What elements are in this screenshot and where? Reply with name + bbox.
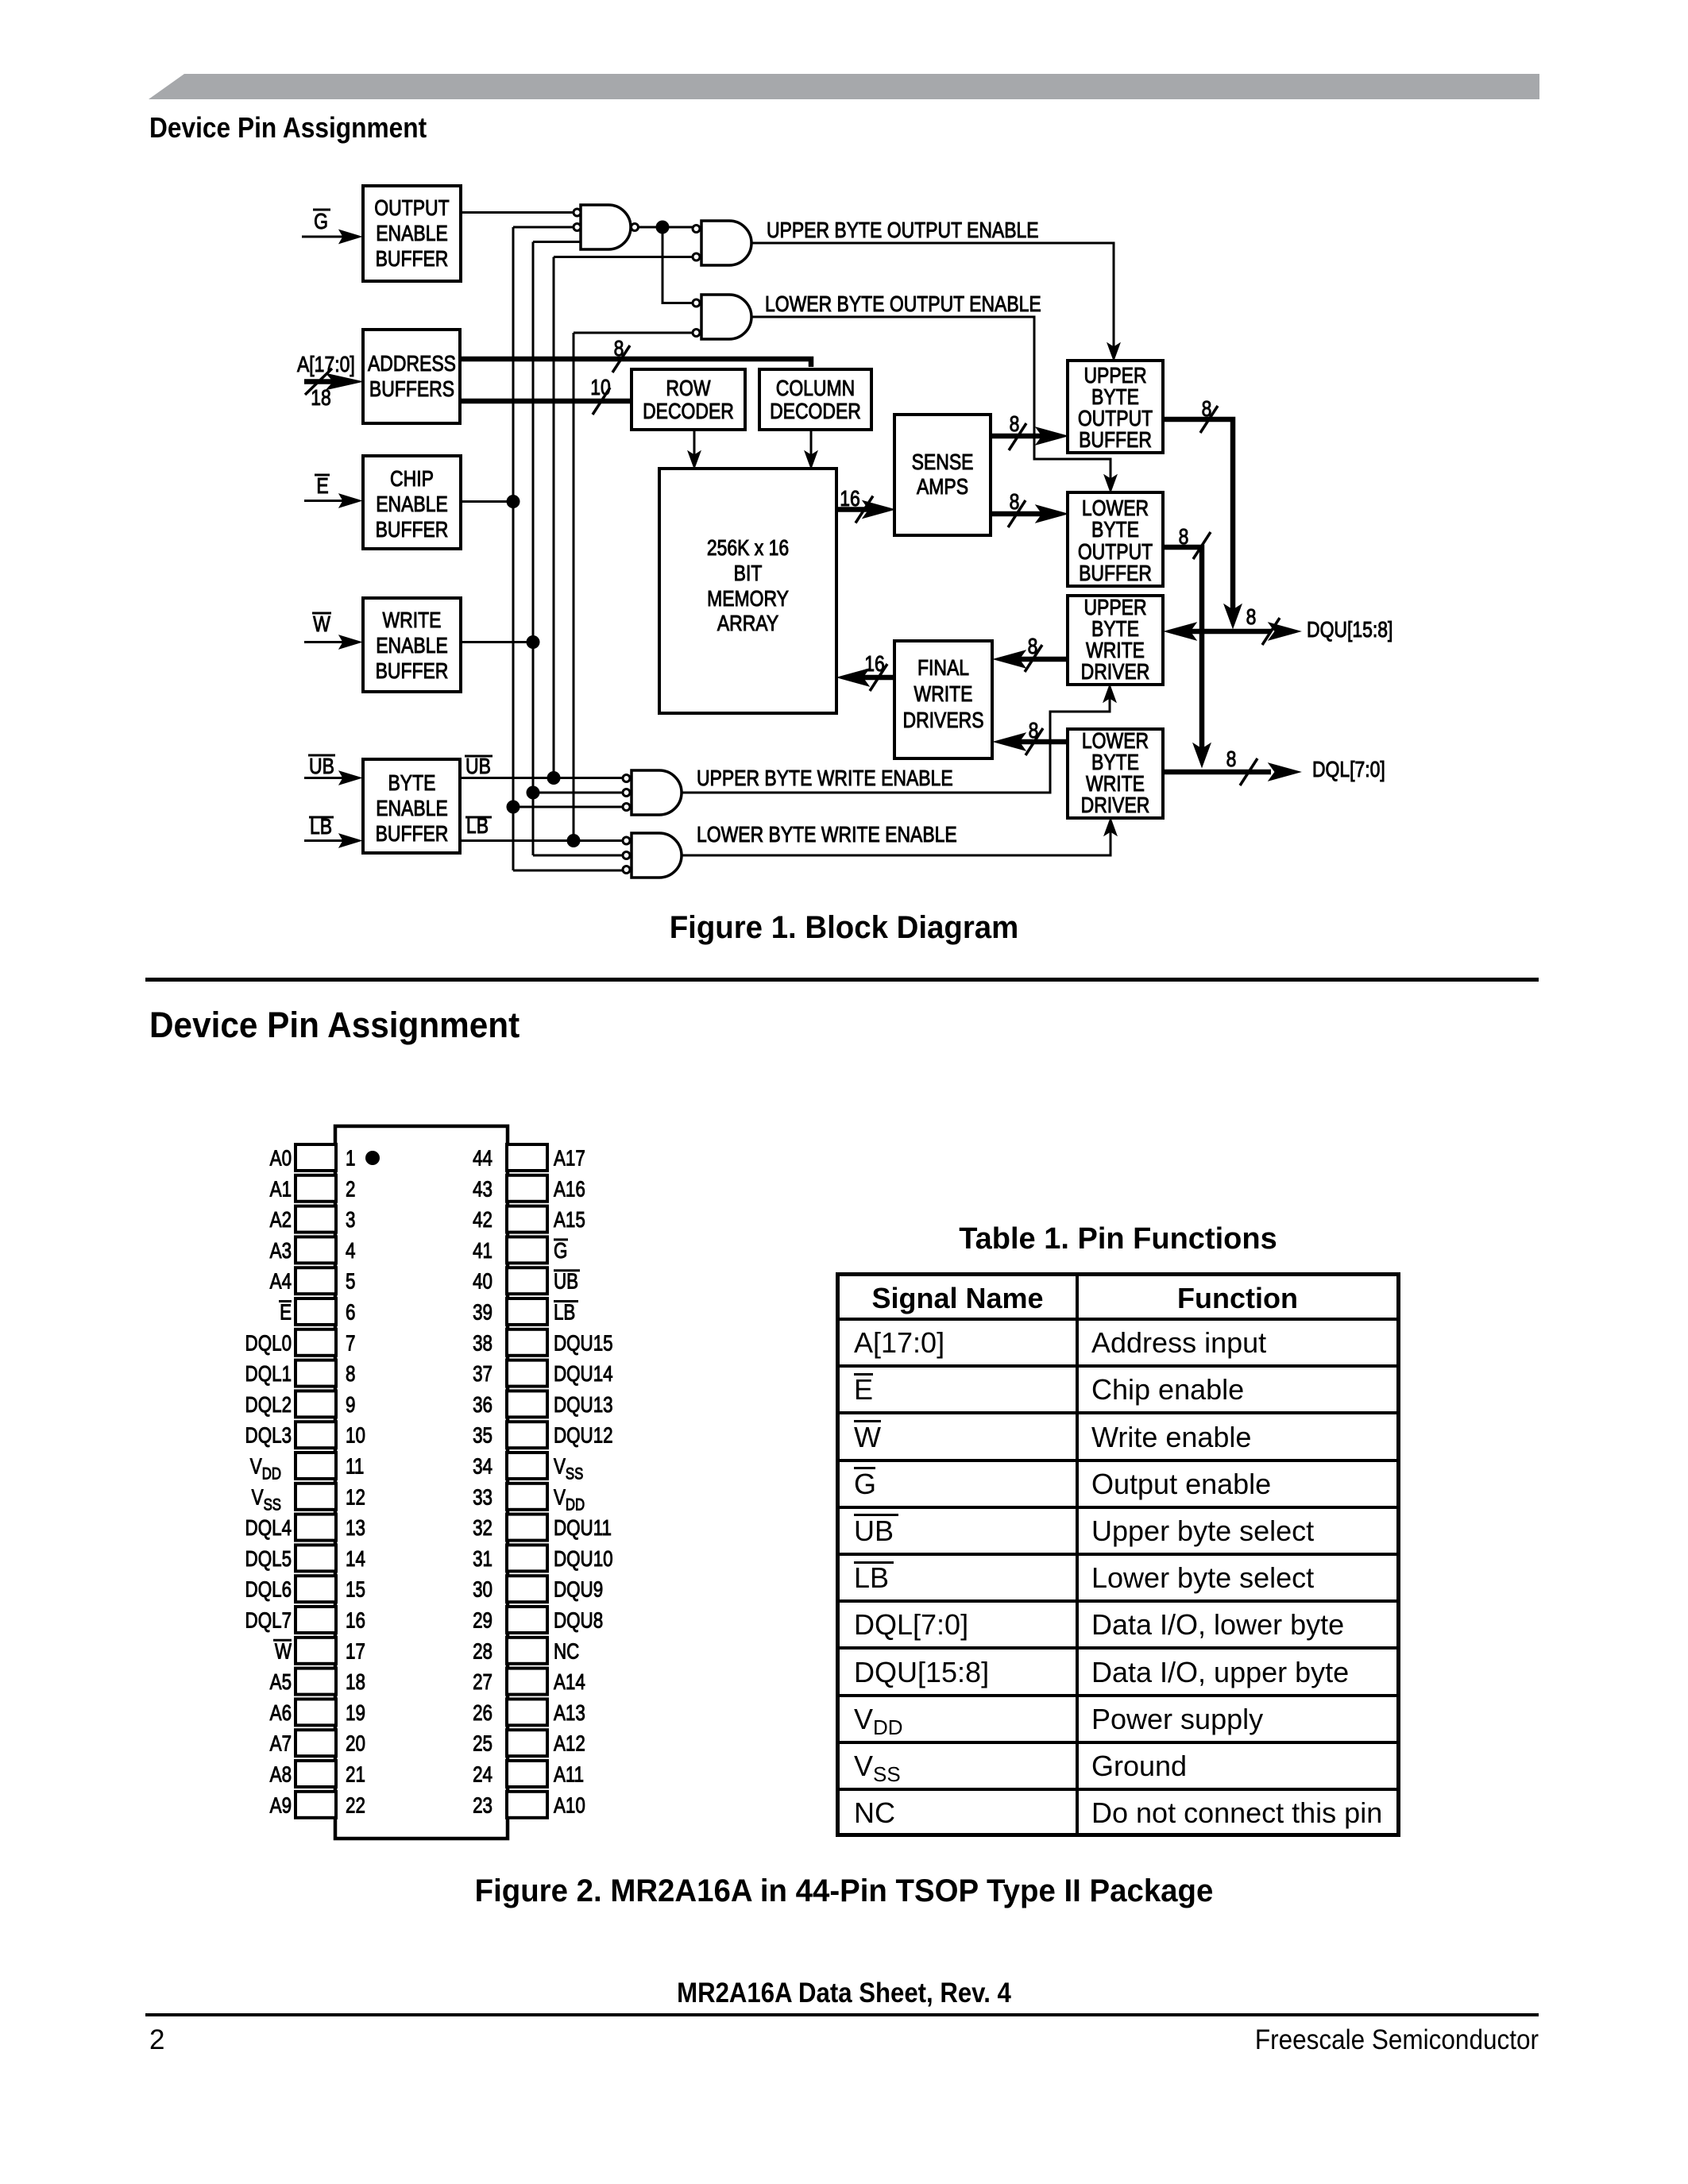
wire E to upper write gate input 3 [507, 801, 623, 814]
svg-text:A9: A9 [270, 1793, 292, 1818]
svg-text:UPPER BYTE WRITE ENABLE: UPPER BYTE WRITE ENABLE [697, 766, 953, 791]
footer rule [145, 2013, 1539, 2016]
pin 35 (DQU12) [473, 1422, 613, 1448]
Figure 1 caption [34, 912, 1655, 943]
svg-text:LOWER BYTE WRITE ENABLE: LOWER BYTE WRITE ENABLE [697, 823, 957, 847]
svg-text:WRITE: WRITE [914, 682, 973, 707]
pin 10 (DQL3) [245, 1422, 365, 1448]
svg-text:28: 28 [473, 1639, 492, 1664]
wire NAND output branch to lower OE gate [662, 227, 693, 303]
svg-text:VDD: VDD [250, 1454, 281, 1484]
svg-text:8: 8 [1179, 525, 1189, 550]
svg-text:43: 43 [473, 1177, 492, 1202]
wire upper byte output enable to upper byte output buffer [751, 243, 1120, 361]
AND gate upper byte output enable [693, 221, 751, 265]
svg-text:BUFFER: BUFFER [376, 247, 449, 272]
bus A input (18) arrow with slash [304, 369, 362, 411]
pin 20 (A7) [270, 1730, 365, 1756]
section heading [149, 1007, 520, 1043]
svg-text:39: 39 [473, 1300, 492, 1325]
bus 16 memory to sense amps [836, 487, 894, 523]
svg-text:30: 30 [473, 1577, 492, 1602]
wire LB to lower OE gate input 2 [574, 332, 693, 334]
bus 8 sense amps to upper byte output buffer [991, 412, 1068, 450]
svg-text:ENABLE: ENABLE [376, 492, 448, 517]
IC package body 44-pin TSOP [335, 1126, 508, 1839]
svg-text:8: 8 [1010, 412, 1020, 437]
svg-text:44: 44 [473, 1146, 492, 1171]
pin 11 (VDD) [250, 1453, 364, 1484]
svg-text:ARRAY: ARRAY [717, 612, 778, 636]
svg-text:10: 10 [346, 1423, 365, 1448]
svg-text:BUFFER: BUFFER [1079, 561, 1152, 586]
pin 1 index dot [365, 1151, 380, 1165]
svg-text:8: 8 [346, 1362, 355, 1387]
svg-text:18: 18 [311, 386, 331, 411]
svg-text:A8: A8 [270, 1762, 292, 1787]
svg-text:6: 6 [346, 1300, 355, 1325]
svg-text:DQU[15:8]: DQU[15:8] [1307, 618, 1393, 642]
wire W to upper write gate input 2 [527, 786, 623, 800]
svg-text:21: 21 [346, 1762, 365, 1787]
wire lower byte write enable to lower byte write driver [682, 818, 1117, 855]
svg-text:UB: UB [465, 754, 491, 779]
net LB buffer output label [465, 814, 492, 839]
bus 8 upper byte output buffer to DQU [1163, 397, 1242, 628]
block ADDRESS BUFFERS [363, 330, 460, 423]
svg-text:16: 16 [864, 652, 885, 677]
block FINAL WRITE DRIVERS [894, 641, 992, 758]
wire LB input arrow [304, 834, 361, 847]
pin 25 (A12) [473, 1730, 585, 1756]
svg-text:DQU15: DQU15 [554, 1331, 613, 1356]
bus 8 lower byte write driver to final write drivers [994, 719, 1068, 755]
pin 3 (A2) [270, 1206, 356, 1233]
svg-text:13: 13 [346, 1516, 365, 1541]
svg-text:ENABLE: ENABLE [376, 797, 448, 821]
svg-text:20: 20 [346, 1731, 365, 1756]
svg-text:A4: A4 [270, 1269, 292, 1294]
svg-text:DQL5: DQL5 [245, 1547, 292, 1572]
svg-text:DRIVER: DRIVER [1081, 660, 1150, 685]
net UPPER BYTE WRITE ENABLE label [697, 766, 953, 791]
pin 26 (A13) [473, 1699, 585, 1725]
svg-text:DQL1: DQL1 [245, 1362, 292, 1387]
wire OE buffer output to NAND input 1 [461, 211, 574, 214]
svg-text:G: G [554, 1239, 567, 1264]
svg-text:A6: A6 [270, 1701, 292, 1726]
pin 38 (DQU15) [473, 1329, 613, 1356]
svg-text:24: 24 [473, 1762, 492, 1787]
wire W buffer output [461, 635, 540, 649]
pin 5 (A4) [270, 1268, 356, 1294]
pin 42 (A15) [473, 1206, 585, 1233]
svg-text:ENABLE: ENABLE [376, 222, 448, 246]
footer center [93, 1979, 1595, 2007]
wire net UB vertical [553, 257, 555, 778]
pin 37 (DQU14) [473, 1360, 613, 1387]
net LOWER BYTE OUTPUT ENABLE label [765, 292, 1041, 317]
pin 22 (A9) [270, 1792, 365, 1818]
svg-text:A12: A12 [554, 1731, 585, 1756]
svg-text:UPPER BYTE OUTPUT ENABLE: UPPER BYTE OUTPUT ENABLE [767, 218, 1039, 243]
wire row decoder to memory array [688, 430, 701, 469]
svg-text:CHIP: CHIP [390, 467, 434, 492]
wire net E vertical [512, 227, 515, 870]
svg-text:WRITE: WRITE [383, 608, 442, 633]
wire net W vertical [532, 242, 535, 856]
block SENSE AMPS [894, 415, 991, 535]
svg-text:37: 37 [473, 1362, 492, 1387]
AND gate upper byte write enable [623, 770, 682, 815]
svg-text:ENABLE: ENABLE [376, 634, 448, 658]
svg-text:BUFFER: BUFFER [376, 518, 449, 542]
bus 8 column address with slash [461, 337, 811, 372]
svg-text:8: 8 [1246, 605, 1257, 630]
wire E input arrow [304, 494, 361, 507]
svg-text:25: 25 [473, 1731, 492, 1756]
svg-text:8: 8 [1028, 635, 1038, 659]
running head [149, 114, 427, 142]
wire NAND output [639, 221, 693, 234]
svg-text:DQU12: DQU12 [554, 1423, 613, 1448]
pin 6 (E) [279, 1298, 356, 1325]
svg-text:BUFFERS: BUFFERS [369, 377, 454, 402]
svg-text:FINAL: FINAL [917, 656, 969, 681]
svg-text:10: 10 [590, 376, 611, 400]
net E-bar input label [315, 474, 330, 499]
svg-text:22: 22 [346, 1793, 365, 1818]
pin 36 (DQU13) [473, 1391, 613, 1417]
pin 7 (DQL0) [245, 1329, 356, 1356]
svg-text:DRIVERS: DRIVERS [903, 708, 984, 733]
svg-text:BUFFER: BUFFER [1079, 428, 1152, 453]
net UPPER BYTE OUTPUT ENABLE label [767, 218, 1039, 243]
bus 8 sense amps to lower byte output buffer [991, 490, 1068, 527]
svg-text:AMPS: AMPS [917, 475, 968, 500]
svg-text:LB: LB [310, 815, 332, 839]
svg-text:16: 16 [346, 1608, 365, 1633]
block ROW DECODER [632, 369, 745, 430]
svg-text:DQU10: DQU10 [554, 1547, 613, 1572]
svg-text:29: 29 [473, 1608, 492, 1633]
pin 21 (A8) [270, 1761, 365, 1787]
net A[17:0] input label [297, 353, 355, 377]
svg-text:VDD: VDD [554, 1485, 585, 1515]
net DQU[15:8] label [1307, 618, 1393, 642]
pin 17 (W) [273, 1638, 365, 1664]
block 256K x 16 BIT MEMORY ARRAY [659, 469, 836, 713]
svg-text:8: 8 [614, 337, 624, 361]
svg-text:A3: A3 [270, 1239, 292, 1264]
Table title [836, 1224, 1400, 1254]
svg-text:38: 38 [473, 1331, 492, 1356]
svg-text:A5: A5 [270, 1670, 292, 1695]
svg-text:15: 15 [346, 1577, 365, 1602]
svg-text:27: 27 [473, 1670, 492, 1695]
svg-text:2: 2 [346, 1177, 355, 1202]
pin 41 (G) [473, 1237, 568, 1263]
block CHIP ENABLE BUFFER [363, 456, 461, 549]
block LOWER BYTE OUTPUT BUFFER [1068, 492, 1163, 586]
svg-text:DQL0: DQL0 [245, 1331, 292, 1356]
svg-text:26: 26 [473, 1701, 492, 1726]
block OUTPUT ENABLE BUFFER [363, 186, 461, 281]
svg-text:8: 8 [1226, 747, 1237, 772]
section rule [145, 978, 1539, 982]
pin 13 (DQL4) [245, 1515, 365, 1541]
svg-text:DQL3: DQL3 [245, 1423, 292, 1448]
svg-text:12: 12 [346, 1485, 365, 1510]
pin 2 (A1) [270, 1175, 356, 1202]
svg-text:A11: A11 [554, 1762, 584, 1787]
block UPPER BYTE OUTPUT BUFFER [1068, 361, 1163, 453]
svg-text:1: 1 [346, 1146, 355, 1171]
wire E to lower write gate input 3 [513, 870, 622, 872]
net UB-bar input label [308, 754, 335, 779]
svg-text:OUTPUT: OUTPUT [374, 196, 450, 221]
svg-text:DECODER: DECODER [643, 399, 734, 424]
svg-text:35: 35 [473, 1423, 492, 1448]
svg-text:LB: LB [466, 814, 489, 839]
svg-text:A15: A15 [554, 1208, 585, 1233]
svg-text:SENSE: SENSE [912, 450, 974, 475]
svg-text:UB: UB [309, 754, 334, 779]
svg-text:NC: NC [554, 1639, 579, 1664]
wire G input arrow [302, 230, 361, 244]
svg-text:BYTE: BYTE [1091, 518, 1139, 542]
AND gate lower byte output enable [693, 295, 751, 339]
svg-text:A10: A10 [554, 1793, 585, 1818]
svg-text:DQL2: DQL2 [245, 1393, 292, 1418]
svg-text:A7: A7 [270, 1731, 292, 1756]
pin 9 (DQL2) [245, 1391, 356, 1417]
pin 23 (A10) [473, 1792, 585, 1818]
svg-text:A2: A2 [270, 1208, 292, 1233]
svg-text:19: 19 [346, 1701, 365, 1726]
svg-text:DQU8: DQU8 [554, 1608, 603, 1633]
svg-text:A0: A0 [270, 1146, 292, 1171]
svg-text:DQL6: DQL6 [245, 1577, 292, 1602]
svg-text:36: 36 [473, 1393, 492, 1418]
pin 33 (VDD) [473, 1484, 585, 1515]
wire NAND input 3 from W [533, 241, 581, 243]
pin 43 (A16) [473, 1175, 585, 1202]
svg-text:14: 14 [346, 1547, 365, 1572]
svg-text:ROW: ROW [666, 376, 711, 401]
bus 16 final write drivers to memory [837, 652, 894, 691]
block UPPER BYTE WRITE DRIVER [1068, 596, 1163, 685]
svg-text:9: 9 [346, 1393, 355, 1418]
svg-text:4: 4 [346, 1239, 355, 1264]
pin 28 (NC) [473, 1638, 579, 1664]
svg-text:41: 41 [473, 1239, 492, 1264]
svg-text:A13: A13 [554, 1701, 585, 1726]
svg-text:256K x 16: 256K x 16 [707, 536, 789, 561]
net G-bar input label [313, 210, 330, 234]
wire E buffer output [461, 495, 520, 508]
pin 34 (VSS) [473, 1453, 583, 1484]
pin 16 (DQL7) [245, 1607, 365, 1633]
Figure 2 caption [34, 1875, 1655, 1907]
svg-text:LOWER BYTE OUTPUT ENABLE: LOWER BYTE OUTPUT ENABLE [765, 292, 1041, 317]
svg-text:BUFFER: BUFFER [376, 822, 449, 847]
net LOWER BYTE WRITE ENABLE label [697, 823, 957, 847]
svg-text:3: 3 [346, 1208, 355, 1233]
wire UB buffer output [460, 771, 622, 785]
svg-text:DECODER: DECODER [770, 399, 861, 424]
pin 30 (DQU9) [473, 1576, 603, 1602]
svg-text:DQU13: DQU13 [554, 1393, 613, 1418]
svg-text:32: 32 [473, 1516, 492, 1541]
pin 15 (DQL6) [245, 1576, 365, 1602]
pin 19 (A6) [270, 1699, 365, 1725]
pin 29 (DQU8) [473, 1607, 603, 1633]
pin 1 (A0) [270, 1144, 356, 1171]
net DQL[7:0] label [1312, 758, 1385, 782]
bus DQU[15:8] with arrowheads [1165, 605, 1300, 645]
wire UB to upper OE gate input 2 [554, 256, 693, 258]
svg-text:BUFFER: BUFFER [376, 659, 449, 684]
svg-text:E: E [316, 474, 328, 499]
wire UB input arrow [304, 771, 361, 785]
svg-text:DQU9: DQU9 [554, 1577, 603, 1602]
svg-text:E: E [280, 1300, 292, 1325]
block WRITE ENABLE BUFFER [363, 598, 461, 692]
wire lower byte output enable to lower byte output buffer [751, 317, 1117, 492]
svg-text:W: W [275, 1639, 292, 1664]
header gray band [149, 74, 1539, 99]
svg-text:DQU14: DQU14 [554, 1362, 613, 1387]
svg-text:A14: A14 [554, 1670, 585, 1695]
pin 18 (A5) [270, 1669, 365, 1695]
svg-text:A1: A1 [270, 1177, 292, 1202]
pin 14 (DQL5) [245, 1545, 365, 1571]
wire NAND input 2 from E [513, 226, 574, 229]
svg-text:8: 8 [1202, 397, 1212, 422]
svg-text:VSS: VSS [252, 1485, 281, 1515]
svg-text:G: G [314, 210, 328, 234]
svg-text:DQL4: DQL4 [245, 1516, 292, 1541]
bus 8 lower byte output buffer to DQL [1163, 525, 1211, 767]
pin 44 (A17) [473, 1144, 585, 1171]
wire W input arrow [304, 635, 361, 649]
NAND gate (read enable) [574, 205, 639, 249]
svg-text:BYTE: BYTE [388, 771, 436, 796]
svg-text:8: 8 [1010, 490, 1020, 515]
svg-text:VSS: VSS [554, 1454, 583, 1484]
AND gate lower byte write enable [623, 833, 682, 878]
svg-text:16: 16 [840, 487, 860, 511]
svg-text:DRIVER: DRIVER [1081, 793, 1150, 818]
svg-text:17: 17 [346, 1639, 365, 1664]
svg-text:42: 42 [473, 1208, 492, 1233]
svg-text:DQL7: DQL7 [245, 1608, 292, 1633]
block COLUMN DECODER [759, 369, 871, 430]
pin 32 (DQU11) [473, 1515, 612, 1541]
svg-text:W: W [313, 612, 330, 637]
wire upper byte write enable to upper byte write driver [682, 685, 1116, 793]
svg-text:40: 40 [473, 1269, 492, 1294]
svg-text:11: 11 [346, 1454, 364, 1479]
pin 8 (DQL1) [245, 1360, 356, 1387]
svg-text:LB: LB [554, 1300, 575, 1325]
svg-text:ADDRESS: ADDRESS [368, 352, 456, 376]
pin 39 (LB) [473, 1298, 578, 1325]
net UB buffer output label [465, 754, 492, 779]
svg-text:18: 18 [346, 1670, 365, 1695]
wire column decoder to memory array [805, 430, 817, 469]
svg-text:COLUMN: COLUMN [776, 376, 855, 401]
svg-text:33: 33 [473, 1485, 492, 1510]
svg-text:23: 23 [473, 1793, 492, 1818]
svg-text:UB: UB [554, 1269, 578, 1294]
net W-bar input label [312, 612, 331, 637]
wire W to lower write gate input 2 [533, 855, 622, 857]
wire LB buffer output [460, 834, 622, 847]
bus 10 row address with slash [461, 376, 632, 415]
block BYTE ENABLE BUFFER [363, 759, 460, 853]
pin 40 (UB) [473, 1268, 580, 1294]
footer page number [149, 2026, 164, 2054]
net LB-bar input label [309, 815, 334, 839]
pin 12 (VSS) [252, 1484, 365, 1515]
bus 8 upper byte write driver to final write drivers [994, 635, 1068, 672]
svg-text:31: 31 [473, 1547, 492, 1572]
footer company [154, 2026, 1539, 2054]
svg-text:5: 5 [346, 1269, 355, 1294]
svg-text:MEMORY: MEMORY [707, 587, 789, 612]
svg-text:BIT: BIT [734, 561, 763, 586]
svg-text:A17: A17 [554, 1146, 585, 1171]
pin 27 (A14) [473, 1669, 585, 1695]
wire net LB vertical [573, 333, 575, 841]
svg-text:34: 34 [473, 1454, 492, 1479]
pin 31 (DQU10) [473, 1545, 613, 1571]
svg-text:7: 7 [346, 1331, 355, 1356]
pin 4 (A3) [270, 1237, 356, 1263]
block LOWER BYTE WRITE DRIVER [1068, 729, 1163, 818]
svg-text:8: 8 [1029, 719, 1039, 743]
svg-text:DQU11: DQU11 [554, 1516, 612, 1541]
pin 24 (A11) [473, 1761, 584, 1787]
svg-text:DQL[7:0]: DQL[7:0] [1312, 758, 1385, 782]
svg-text:A16: A16 [554, 1177, 585, 1202]
bus DQL[7:0] with arrowhead [1163, 747, 1300, 785]
